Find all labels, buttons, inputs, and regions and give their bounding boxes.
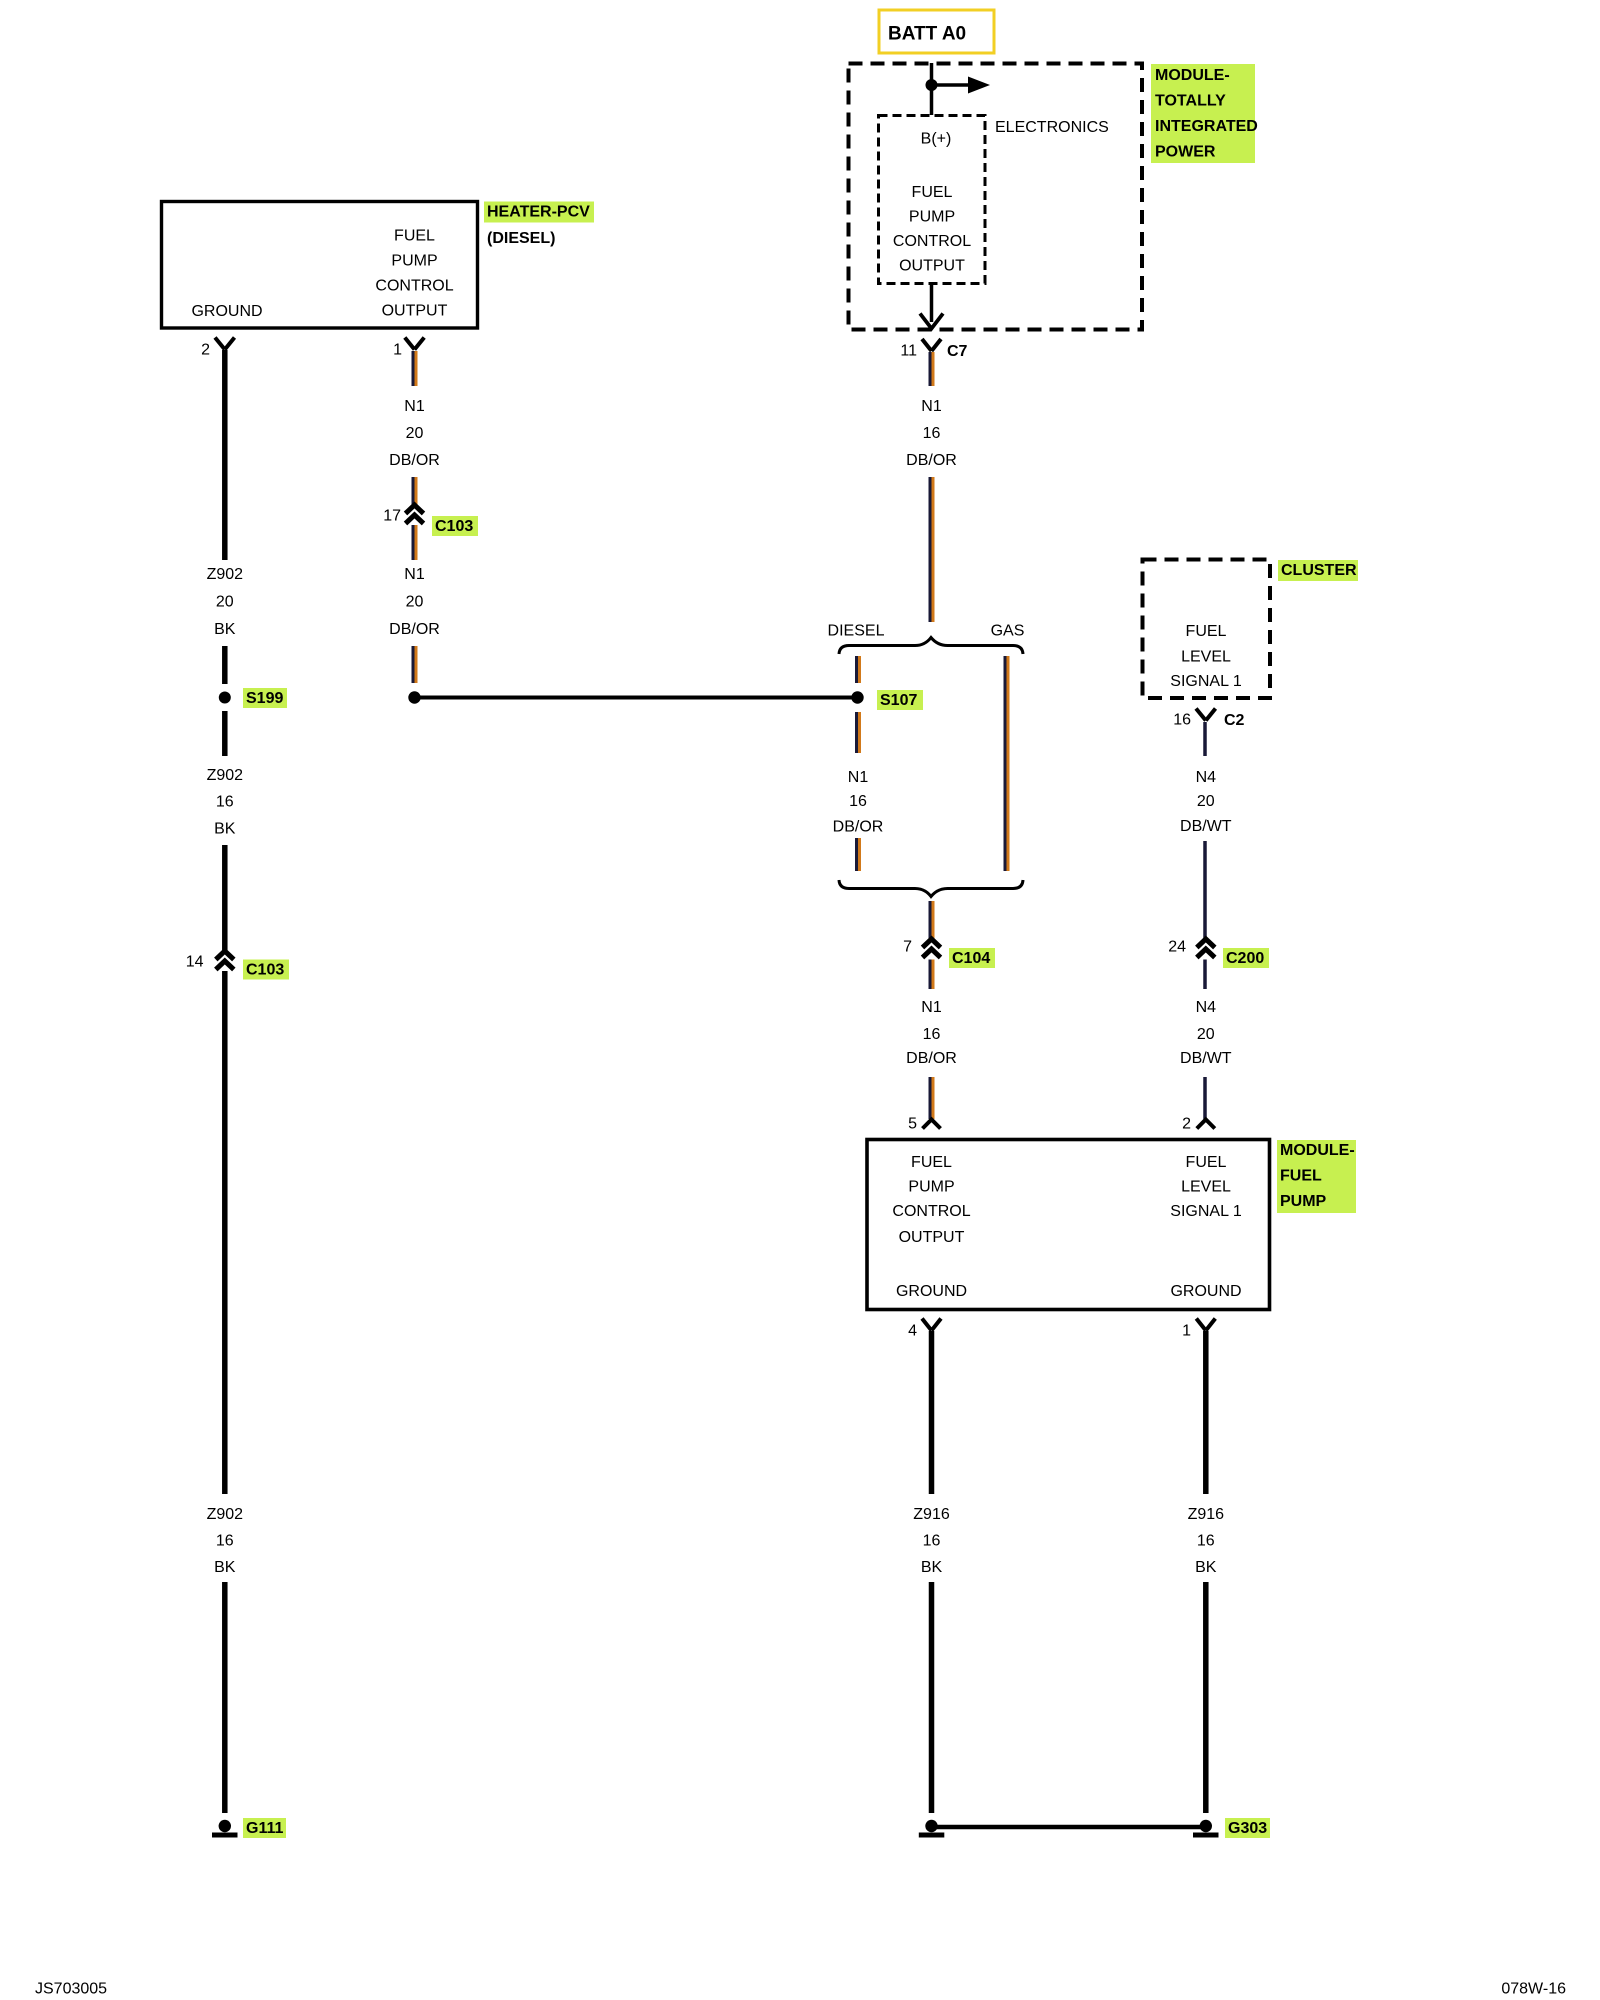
svg-text:1: 1 <box>1182 1323 1191 1340</box>
svg-text:DB/OR: DB/OR <box>906 452 957 469</box>
svg-text:DB/WT: DB/WT <box>1180 1050 1232 1067</box>
node junction at heater branch <box>408 691 420 703</box>
svg-text:JS703005: JS703005 <box>35 1981 107 1998</box>
svg-text:GROUND: GROUND <box>191 303 262 320</box>
svg-text:16: 16 <box>1173 712 1191 729</box>
wire N1 16 DB/OR below C7 <box>930 352 933 386</box>
svg-text:1: 1 <box>393 342 402 359</box>
svg-text:SIGNAL 1: SIGNAL 1 <box>1170 673 1242 690</box>
svg-text:DB/WT: DB/WT <box>1180 818 1232 835</box>
svg-text:FUEL: FUEL <box>911 1154 952 1171</box>
wire ground bus between G303 points <box>932 1825 1206 1830</box>
svg-text:5: 5 <box>908 1116 917 1133</box>
svg-text:BK: BK <box>1195 1559 1217 1576</box>
wire N4 20 DB/WT <box>1203 722 1207 756</box>
wire B(+) feed inside TIPM <box>930 63 934 115</box>
svg-text:(DIESEL): (DIESEL) <box>487 230 555 247</box>
svg-text:S199: S199 <box>246 690 283 707</box>
wire horizontal to S107 <box>415 696 858 700</box>
svg-text:4: 4 <box>908 1323 917 1340</box>
wire <box>222 1582 228 1813</box>
wire N1 20 DB/OR from heater pin 1 <box>413 351 416 386</box>
svg-text:Z902: Z902 <box>207 1506 244 1523</box>
svg-text:S107: S107 <box>880 692 917 709</box>
svg-text:Z902: Z902 <box>207 767 244 784</box>
svg-text:N1: N1 <box>921 999 942 1016</box>
svg-text:OUTPUT: OUTPUT <box>382 303 448 320</box>
svg-text:17: 17 <box>383 508 401 525</box>
svg-text:N1: N1 <box>404 566 425 583</box>
component MODULE-FUEL PUMP box <box>867 1140 1270 1310</box>
wire N1 16 DB/OR below C104 <box>930 960 933 990</box>
svg-text:CONTROL: CONTROL <box>893 233 971 250</box>
svg-text:DB/OR: DB/OR <box>389 452 440 469</box>
wire N1 20 DB/OR below C103 <box>413 525 416 560</box>
svg-text:BK: BK <box>214 821 236 838</box>
svg-text:16: 16 <box>216 1533 234 1550</box>
wire <box>222 845 228 951</box>
wire <box>413 477 416 505</box>
svg-text:20: 20 <box>406 594 424 611</box>
pin 4 connector below module <box>908 1319 941 1340</box>
ground G303 left point <box>919 1820 945 1838</box>
svg-text:C200: C200 <box>1226 950 1264 967</box>
label HEATER-PCV <box>484 202 594 248</box>
wire <box>930 1077 933 1119</box>
connector C103 pin 14 in-line <box>186 951 289 980</box>
svg-text:BK: BK <box>214 1559 236 1576</box>
wire <box>930 477 933 622</box>
wire arrow to right inside TIPM <box>932 83 973 87</box>
svg-text:2: 2 <box>1182 1116 1191 1133</box>
svg-text:24: 24 <box>1168 939 1186 956</box>
svg-text:ELECTRONICS: ELECTRONICS <box>995 119 1109 136</box>
svg-text:BATT A0: BATT A0 <box>888 24 966 45</box>
svg-text:DB/OR: DB/OR <box>389 621 440 638</box>
svg-text:16: 16 <box>1197 1533 1215 1550</box>
svg-text:FUEL: FUEL <box>394 228 435 245</box>
wire Z902 16 BK long segment <box>222 971 228 1494</box>
box B(+) FUEL PUMP CONTROL OUTPUT inner dashed <box>879 116 986 284</box>
svg-text:FUEL: FUEL <box>1186 1154 1227 1171</box>
svg-text:DB/OR: DB/OR <box>833 819 884 836</box>
svg-text:HEATER-PCV: HEATER-PCV <box>487 204 590 221</box>
wire brace split top <box>839 638 1023 655</box>
ground G111 <box>212 1818 286 1838</box>
svg-text:BK: BK <box>921 1559 943 1576</box>
wire GAS branch DB/OR <box>1005 656 1008 871</box>
wire <box>857 838 860 871</box>
wire <box>929 1582 935 1813</box>
wire <box>222 646 228 684</box>
label CLUSTER <box>1278 560 1358 581</box>
svg-text:G111: G111 <box>246 1820 283 1837</box>
wire N4 20 DB/WT below C200 <box>1203 960 1207 990</box>
svg-text:POWER: POWER <box>1155 144 1216 161</box>
svg-text:CLUSTER: CLUSTER <box>1281 562 1357 579</box>
fuse box BATT A0 <box>879 10 994 53</box>
svg-text:N1: N1 <box>404 398 425 415</box>
svg-text:14: 14 <box>186 954 204 971</box>
svg-text:C104: C104 <box>952 950 990 967</box>
svg-text:20: 20 <box>1197 793 1215 810</box>
svg-text:Z916: Z916 <box>1188 1506 1225 1523</box>
svg-text:TOTALLY: TOTALLY <box>1155 93 1226 110</box>
svg-text:DIESEL: DIESEL <box>828 623 885 640</box>
svg-text:CONTROL: CONTROL <box>892 1203 970 1220</box>
connector C2 pin 16 <box>1173 709 1244 730</box>
svg-text:Z916: Z916 <box>913 1506 950 1523</box>
svg-text:Z902: Z902 <box>207 566 244 583</box>
svg-text:16: 16 <box>923 1533 941 1550</box>
svg-text:PUMP: PUMP <box>908 1179 954 1196</box>
ground G303 right point <box>1193 1818 1270 1838</box>
wire <box>222 711 228 756</box>
wire Z902 20 BK segment 1 <box>222 350 228 560</box>
svg-text:FUEL: FUEL <box>912 184 953 201</box>
svg-text:B(+): B(+) <box>921 131 952 148</box>
svg-text:PUMP: PUMP <box>909 209 955 226</box>
wire <box>1203 1077 1207 1119</box>
svg-text:20: 20 <box>406 425 424 442</box>
svg-text:GAS: GAS <box>991 623 1025 640</box>
svg-text:G303: G303 <box>1228 1820 1267 1837</box>
splice S199 <box>219 688 287 708</box>
svg-text:FUEL: FUEL <box>1186 623 1227 640</box>
wire below S107 <box>857 712 860 753</box>
svg-text:CONTROL: CONTROL <box>375 278 453 295</box>
svg-text:BK: BK <box>214 621 236 638</box>
svg-text:OUTPUT: OUTPUT <box>899 258 965 275</box>
pin 2 male connector <box>1182 1116 1215 1133</box>
wire <box>1203 841 1207 939</box>
svg-text:16: 16 <box>923 425 941 442</box>
svg-text:078W-16: 078W-16 <box>1501 1981 1566 1998</box>
svg-text:N4: N4 <box>1196 999 1217 1016</box>
svg-text:GROUND: GROUND <box>1170 1283 1241 1300</box>
wire Z916 16 BK left <box>929 1331 935 1494</box>
svg-text:PUMP: PUMP <box>1280 1193 1327 1210</box>
wire <box>1203 1582 1209 1813</box>
wire <box>413 646 416 683</box>
svg-text:GROUND: GROUND <box>896 1283 967 1300</box>
pin 1 connector of heater <box>393 338 424 359</box>
connector C104 pin 7 in-line <box>903 939 995 969</box>
svg-text:OUTPUT: OUTPUT <box>899 1229 965 1246</box>
label MODULE-FUEL PUMP <box>1277 1140 1356 1213</box>
connector C7 pin 11 <box>900 339 967 360</box>
wire Z916 16 BK right <box>1203 1331 1209 1494</box>
splice S107 <box>851 690 923 710</box>
svg-text:MODULE-: MODULE- <box>1280 1142 1355 1159</box>
pin 2 connector of heater <box>201 338 234 359</box>
component HEATER-PCV (DIESEL) box <box>162 202 478 329</box>
connector C200 pin 24 in-line <box>1168 939 1269 969</box>
svg-text:N1: N1 <box>848 769 869 786</box>
svg-text:C7: C7 <box>947 343 968 360</box>
wire fuel pump control output down arrow <box>930 284 934 322</box>
svg-text:PUMP: PUMP <box>391 253 437 270</box>
svg-text:C2: C2 <box>1224 712 1245 729</box>
svg-text:16: 16 <box>849 793 867 810</box>
node B(+) junction <box>926 79 938 91</box>
svg-text:C103: C103 <box>435 518 473 535</box>
svg-text:N4: N4 <box>1196 769 1217 786</box>
svg-text:11: 11 <box>900 343 917 360</box>
pin 1 connector below module <box>1182 1319 1215 1340</box>
svg-text:16: 16 <box>923 1026 941 1043</box>
module CLUSTER dashed box <box>1143 560 1271 699</box>
svg-text:7: 7 <box>903 939 912 956</box>
svg-text:LEVEL: LEVEL <box>1181 1179 1231 1196</box>
wire below merge <box>930 901 933 939</box>
wire DIESEL branch DB/OR <box>857 656 860 683</box>
pin 5 male connector <box>908 1116 940 1133</box>
svg-text:DB/OR: DB/OR <box>906 1050 957 1067</box>
svg-text:C103: C103 <box>246 962 284 979</box>
svg-text:INTEGRATED: INTEGRATED <box>1155 118 1258 135</box>
svg-text:LEVEL: LEVEL <box>1181 649 1231 666</box>
svg-text:16: 16 <box>216 794 234 811</box>
svg-text:20: 20 <box>1197 1026 1215 1043</box>
module U1 TIPM dashed box <box>849 64 1143 330</box>
svg-text:2: 2 <box>201 342 210 359</box>
svg-text:MODULE-: MODULE- <box>1155 67 1230 84</box>
svg-text:FUEL: FUEL <box>1280 1168 1322 1185</box>
connector C103 pin 17 in-line <box>383 505 478 536</box>
wire brace merge bottom <box>839 880 1023 897</box>
svg-text:20: 20 <box>216 594 234 611</box>
label MODULE-TOTALLY INTEGRATED POWER <box>1151 64 1258 163</box>
svg-text:N1: N1 <box>921 398 942 415</box>
svg-text:SIGNAL 1: SIGNAL 1 <box>1170 1203 1242 1220</box>
